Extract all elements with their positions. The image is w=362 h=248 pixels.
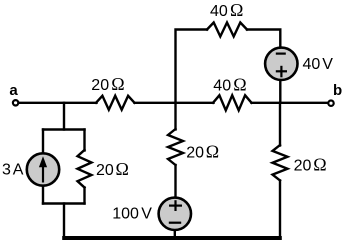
voltage source V2 plus	[276, 66, 287, 78]
wire loop right upper	[83, 130, 85, 151]
wire right branch lower	[279, 181, 281, 239]
wire right branch below main	[279, 103, 281, 146]
resistor R6 20ohm loop vertical	[78, 150, 92, 188]
wire loop left lower	[42, 186, 44, 204]
voltage source V2 40V circle	[265, 48, 297, 80]
wire top left vertical (middle branch upper)	[176, 30, 208, 103]
svg-text:40V: 40V	[303, 56, 334, 73]
current source I1 arrow	[42, 165, 44, 183]
wire stub main to loop top	[63, 103, 65, 130]
wire main left (a to R 20ohm)	[18, 102, 97, 104]
wire top right corner down to 40V source	[247, 30, 280, 49]
wire 100V source to bottom	[174, 230, 176, 239]
svg-text:40Ω: 40Ω	[210, 0, 243, 20]
terminal b	[328, 101, 333, 106]
wire stub loop bottom to bottom wire	[63, 204, 65, 238]
current source I1 3A circle	[27, 153, 59, 185]
voltage source V2 minus	[276, 52, 286, 54]
wire loop right lower	[83, 188, 85, 204]
svg-text:b: b	[333, 82, 342, 99]
wire main right (to b)	[252, 102, 329, 104]
resistor R3 40ohm top	[207, 23, 247, 37]
wire 40V source bottom to main	[279, 80, 281, 103]
svg-text:20Ω: 20Ω	[294, 155, 327, 175]
resistor R5 20ohm middle vertical	[168, 129, 183, 165]
wire loop left upper	[42, 130, 44, 155]
svg-text:20Ω: 20Ω	[186, 142, 219, 162]
svg-text:40Ω: 40Ω	[213, 75, 246, 95]
wire main middle	[135, 102, 214, 104]
resistor R4 20ohm right vertical	[273, 145, 288, 181]
voltage source V1 100V circle	[159, 198, 191, 230]
svg-text:100V: 100V	[112, 206, 152, 223]
wire middle branch to 100V source	[174, 165, 176, 199]
svg-text:20Ω: 20Ω	[96, 159, 129, 179]
resistor R2 40ohm horizontal middle	[213, 95, 252, 110]
svg-text:a: a	[9, 82, 18, 99]
wire loop bottom edge	[43, 202, 85, 204]
svg-text:20Ω: 20Ω	[91, 74, 124, 94]
wire middle branch below main	[174, 103, 176, 130]
terminal a	[13, 100, 18, 105]
wire bottom thick	[62, 236, 282, 240]
voltage source V1 plus	[169, 200, 182, 211]
wire loop top edge	[43, 128, 85, 130]
svg-text:3A: 3A	[2, 161, 24, 178]
resistor R1 20ohm horizontal left	[96, 96, 135, 110]
voltage source V1 minus	[169, 222, 181, 224]
